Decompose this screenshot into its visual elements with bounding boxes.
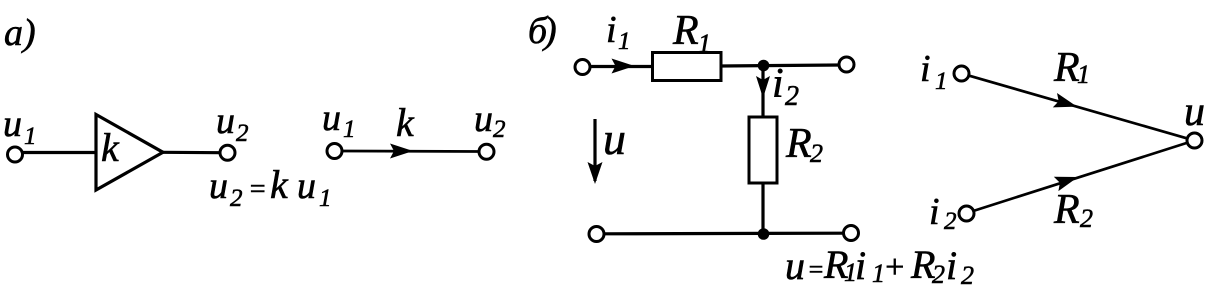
- svg-text:R: R: [785, 121, 812, 167]
- svg-text:1: 1: [343, 116, 356, 143]
- svg-text:u: u: [603, 113, 626, 164]
- svg-text:2: 2: [785, 81, 799, 112]
- svg-text:u: u: [785, 243, 805, 288]
- svg-text:k: k: [396, 100, 415, 145]
- svg-text:i: i: [929, 191, 940, 233]
- svg-text:1: 1: [618, 28, 631, 55]
- svg-text:+: +: [883, 249, 906, 286]
- svg-text:i: i: [772, 61, 784, 107]
- svg-text:2: 2: [944, 208, 957, 235]
- svg-text:u: u: [1184, 89, 1205, 135]
- svg-text:k: k: [101, 125, 120, 170]
- svg-text:а): а): [4, 12, 36, 54]
- svg-text:u: u: [3, 103, 22, 145]
- svg-text:1: 1: [319, 185, 332, 212]
- svg-text:2: 2: [932, 260, 945, 289]
- svg-text:=: =: [807, 255, 825, 284]
- svg-text:2: 2: [810, 139, 823, 168]
- svg-text:i: i: [920, 48, 931, 90]
- svg-text:u: u: [216, 100, 235, 142]
- svg-text:u: u: [297, 165, 316, 207]
- svg-text:i: i: [946, 243, 957, 288]
- svg-text:2: 2: [493, 116, 506, 143]
- svg-text:1: 1: [698, 29, 711, 58]
- svg-text:k: k: [270, 162, 289, 207]
- svg-text:R: R: [672, 8, 699, 54]
- svg-text:1: 1: [24, 123, 37, 150]
- svg-text:=: =: [248, 174, 267, 205]
- svg-text:i: i: [606, 9, 617, 51]
- svg-text:u: u: [322, 97, 341, 139]
- svg-text:2: 2: [236, 120, 249, 147]
- svg-text:u: u: [209, 165, 228, 207]
- svg-text:1: 1: [1077, 60, 1090, 89]
- svg-text:2: 2: [1080, 204, 1093, 233]
- svg-text:i: i: [855, 243, 866, 288]
- svg-text:1: 1: [935, 68, 948, 95]
- svg-text:u: u: [474, 98, 493, 140]
- svg-text:2: 2: [230, 185, 243, 212]
- svg-text:): ): [542, 10, 557, 52]
- svg-text:R: R: [1053, 45, 1080, 91]
- svg-text:R: R: [1053, 187, 1080, 233]
- svg-text:2: 2: [961, 261, 974, 290]
